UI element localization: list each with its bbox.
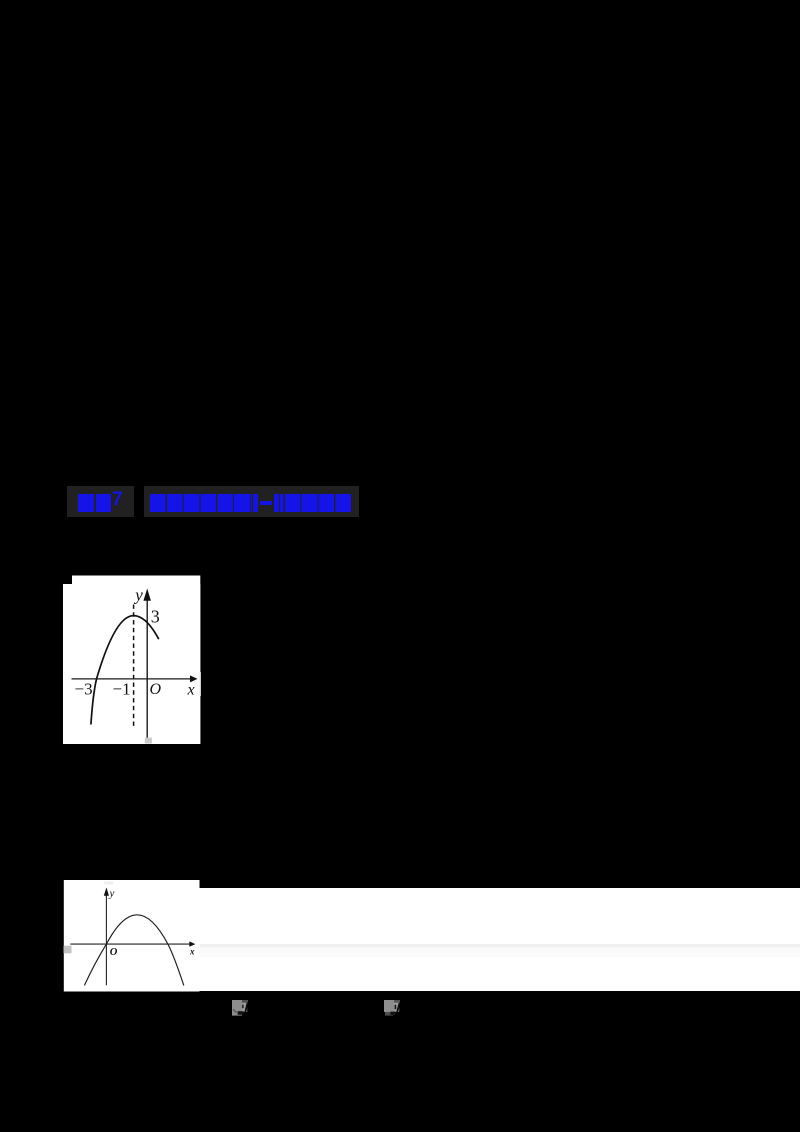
svg-text:O: O xyxy=(150,681,162,698)
svg-text:x: x xyxy=(187,682,195,699)
svg-text:−3: −3 xyxy=(75,680,93,699)
svg-text:x: x xyxy=(189,946,195,956)
svg-text:y: y xyxy=(109,888,115,900)
svg-text:3: 3 xyxy=(151,607,160,627)
svg-text:O: O xyxy=(110,947,118,958)
svg-text:−1: −1 xyxy=(113,680,131,699)
svg-text:y: y xyxy=(133,586,143,605)
